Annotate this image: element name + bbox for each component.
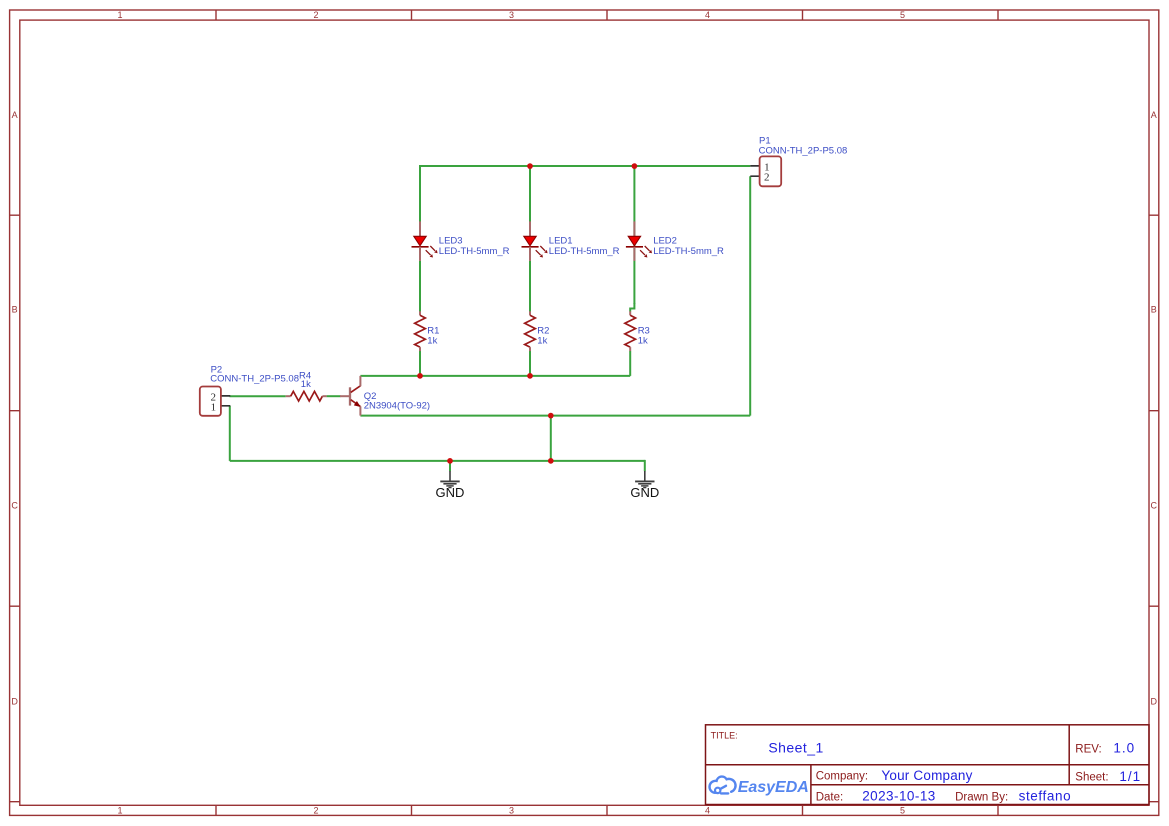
LED LED3	[412, 221, 438, 261]
svg-text:1k: 1k	[537, 336, 547, 347]
ground GND2	[635, 471, 654, 488]
junction GND1	[447, 458, 453, 464]
wire P2 pin2 to R4	[230, 395, 286, 397]
svg-text:2023-10-13: 2023-10-13	[862, 789, 936, 804]
svg-text:GND: GND	[630, 485, 659, 500]
svg-text:Date:: Date:	[816, 791, 844, 803]
wire R1 bottom to rail	[419, 351, 421, 376]
svg-text:1/1: 1/1	[1119, 769, 1141, 784]
svg-text:C: C	[11, 500, 18, 510]
svg-text:Your Company: Your Company	[881, 768, 972, 783]
junction at LED1 top	[527, 163, 533, 169]
svg-text:4: 4	[705, 806, 710, 816]
junction emitter rail	[548, 413, 554, 419]
svg-text:B: B	[12, 304, 18, 314]
svg-text:1: 1	[117, 806, 122, 816]
wire LED1 anode drop	[529, 165, 531, 222]
wire LED3 anode drop	[419, 165, 421, 222]
resistor R4	[286, 391, 327, 401]
svg-text:1k: 1k	[427, 336, 437, 347]
svg-text:C: C	[1151, 500, 1158, 510]
svg-text:1.0: 1.0	[1113, 741, 1135, 756]
svg-text:LED-TH-5mm_R: LED-TH-5mm_R	[439, 246, 510, 257]
svg-text:1k: 1k	[638, 336, 648, 347]
wire P2 pin1 drop	[229, 406, 231, 461]
svg-text:REV:: REV:	[1075, 743, 1101, 755]
svg-text:Sheet:: Sheet:	[1075, 772, 1108, 784]
wire mid drop to ground rail	[550, 416, 552, 461]
wire emitter rail	[360, 415, 750, 417]
svg-text:4: 4	[705, 10, 710, 20]
resistor R3	[625, 311, 636, 351]
wire top power rail	[420, 165, 750, 167]
wire R3 bottom to rail	[629, 351, 631, 376]
svg-text:CONN-TH_2P-P5.08: CONN-TH_2P-P5.08	[759, 145, 848, 156]
svg-text:B: B	[1151, 304, 1157, 314]
wire ground rail	[230, 460, 645, 462]
svg-text:1: 1	[117, 10, 122, 20]
svg-text:Sheet_1: Sheet_1	[768, 740, 823, 756]
svg-text:2N3904(TO-92): 2N3904(TO-92)	[364, 401, 430, 412]
svg-text:D: D	[1151, 696, 1158, 706]
svg-text:Company:: Company:	[816, 770, 868, 782]
svg-text:2: 2	[313, 806, 318, 816]
svg-text:A: A	[12, 110, 18, 120]
LED LED1	[522, 221, 548, 261]
svg-text:EasyEDA: EasyEDA	[738, 779, 809, 796]
svg-text:2: 2	[313, 10, 318, 20]
svg-text:steffano: steffano	[1019, 789, 1072, 804]
svg-text:LED-TH-5mm_R: LED-TH-5mm_R	[549, 246, 620, 257]
svg-text:1: 1	[211, 401, 217, 413]
wire R2 bottom to rail	[529, 351, 531, 376]
wire GND2 stub	[644, 460, 646, 471]
svg-text:1k: 1k	[301, 379, 311, 390]
wire P1 pin2 vertical	[749, 176, 751, 415]
svg-text:Drawn By:: Drawn By:	[955, 791, 1008, 803]
wire LED2 cathode to R3 jog	[630, 303, 634, 312]
junction mid drop bottom	[548, 458, 554, 464]
junction R2 bottom	[527, 373, 533, 379]
svg-text:GND: GND	[436, 485, 465, 500]
connector P2	[200, 387, 231, 416]
wire LED1 cathode to R2	[529, 261, 531, 312]
svg-text:3: 3	[509, 10, 514, 20]
resistor R2	[525, 311, 536, 351]
svg-text:D: D	[11, 696, 18, 706]
svg-text:3: 3	[509, 806, 514, 816]
svg-text:5: 5	[900, 10, 905, 20]
svg-text:LED-TH-5mm_R: LED-TH-5mm_R	[653, 246, 724, 257]
transistor Q2	[340, 376, 361, 416]
wire GND1 stub	[449, 461, 451, 471]
svg-text:A: A	[1151, 110, 1157, 120]
svg-text:CONN-TH_2P-P5.08: CONN-TH_2P-P5.08	[210, 374, 299, 385]
junction R1 bottom	[417, 373, 423, 379]
LED LED2	[626, 221, 652, 261]
wire LED2 anode drop	[633, 165, 635, 304]
EasyEDA logo	[710, 777, 736, 794]
wire LED3 cathode to R1	[419, 261, 421, 312]
svg-text:2: 2	[764, 172, 770, 184]
wire R4 to Q2 base	[327, 395, 341, 397]
junction at LED2 top	[632, 163, 638, 169]
svg-text:5: 5	[900, 806, 905, 816]
resistor R1	[415, 311, 426, 351]
svg-text:TITLE:: TITLE:	[711, 731, 738, 741]
title block	[706, 725, 1150, 805]
wire collector rail	[360, 375, 630, 377]
connector P1	[750, 156, 781, 186]
ground GND1	[440, 471, 459, 488]
